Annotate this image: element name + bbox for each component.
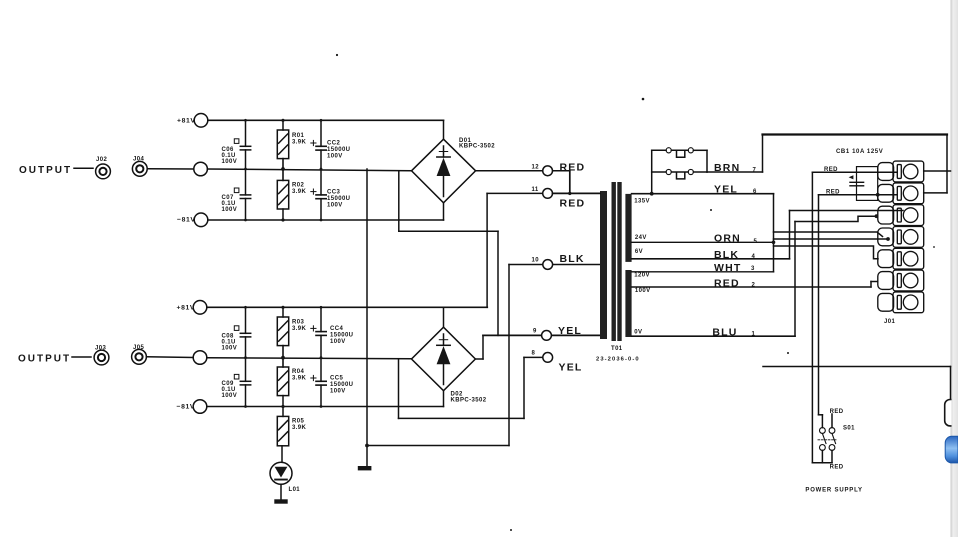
svg-text:ORN: ORN bbox=[714, 232, 741, 244]
svg-text:100V: 100V bbox=[330, 339, 346, 345]
svg-text:J01: J01 bbox=[884, 319, 895, 325]
svg-text:R05: R05 bbox=[292, 419, 304, 425]
svg-text:RED: RED bbox=[830, 409, 844, 415]
svg-text:CC2: CC2 bbox=[327, 141, 340, 147]
svg-text:KBPC-3502: KBPC-3502 bbox=[451, 398, 487, 404]
svg-text:24V: 24V bbox=[635, 235, 647, 241]
svg-text:CB1 10A 125V: CB1 10A 125V bbox=[836, 149, 883, 155]
svg-text:12: 12 bbox=[532, 164, 540, 170]
svg-text:RED: RED bbox=[560, 161, 586, 173]
svg-text:100V: 100V bbox=[222, 159, 238, 165]
svg-text:YEL: YEL bbox=[559, 362, 583, 374]
svg-text:3.9K: 3.9K bbox=[292, 425, 307, 431]
svg-text:T01: T01 bbox=[611, 346, 623, 352]
svg-text:100V: 100V bbox=[327, 154, 343, 160]
svg-text:135V: 135V bbox=[634, 199, 650, 205]
svg-text:23-2036-0-0: 23-2036-0-0 bbox=[596, 357, 640, 363]
svg-text:BRN: BRN bbox=[714, 162, 740, 174]
svg-text:L01: L01 bbox=[289, 487, 301, 493]
svg-text:3.9K: 3.9K bbox=[292, 189, 307, 195]
svg-text:WHT: WHT bbox=[714, 262, 742, 274]
svg-text:+81V: +81V bbox=[177, 305, 195, 312]
svg-text:5: 5 bbox=[754, 239, 758, 245]
svg-text:100V: 100V bbox=[327, 203, 343, 209]
svg-text:100V: 100V bbox=[222, 207, 238, 213]
svg-text:6V: 6V bbox=[635, 249, 643, 255]
svg-text:100V: 100V bbox=[635, 288, 651, 294]
svg-text:3.9K: 3.9K bbox=[292, 326, 307, 332]
svg-text:OUTPUT: OUTPUT bbox=[19, 165, 72, 176]
svg-text:POWER SUPPLY: POWER SUPPLY bbox=[805, 488, 862, 494]
svg-text:CC4: CC4 bbox=[330, 326, 343, 332]
svg-text:100V: 100V bbox=[222, 393, 238, 399]
svg-text:15000U: 15000U bbox=[330, 382, 353, 388]
svg-text:3.9K: 3.9K bbox=[292, 140, 307, 146]
svg-text:4: 4 bbox=[752, 254, 756, 260]
svg-text:RED: RED bbox=[714, 277, 740, 289]
svg-text:8: 8 bbox=[532, 351, 536, 357]
svg-text:100V: 100V bbox=[330, 389, 346, 395]
svg-text:RED: RED bbox=[824, 167, 838, 173]
svg-text:10: 10 bbox=[532, 258, 540, 264]
svg-text:−81V: −81V bbox=[177, 217, 195, 224]
svg-text:BLK: BLK bbox=[560, 253, 585, 265]
svg-text:3.9K: 3.9K bbox=[292, 376, 307, 382]
svg-text:0V: 0V bbox=[634, 330, 642, 336]
svg-text:OUTPUT: OUTPUT bbox=[18, 354, 71, 365]
svg-text:R03: R03 bbox=[292, 320, 304, 326]
svg-text:J02: J02 bbox=[96, 157, 107, 163]
svg-text:2: 2 bbox=[752, 282, 756, 288]
svg-text:100V: 100V bbox=[222, 346, 238, 352]
svg-text:RED: RED bbox=[830, 465, 844, 471]
svg-text:YEL: YEL bbox=[714, 184, 738, 196]
svg-text:15000U: 15000U bbox=[330, 333, 353, 339]
svg-text:11: 11 bbox=[532, 187, 539, 193]
svg-text:R04: R04 bbox=[292, 369, 304, 375]
svg-text:BLU: BLU bbox=[712, 326, 737, 338]
svg-text:1: 1 bbox=[752, 332, 756, 338]
svg-text:R02: R02 bbox=[292, 183, 304, 189]
svg-text:RED: RED bbox=[560, 197, 586, 209]
svg-text:CC3: CC3 bbox=[327, 190, 340, 196]
svg-text:J05: J05 bbox=[133, 345, 144, 351]
svg-text:15000U: 15000U bbox=[327, 196, 350, 202]
svg-text:15000U: 15000U bbox=[327, 147, 350, 153]
svg-text:9: 9 bbox=[533, 329, 537, 335]
svg-text:7: 7 bbox=[753, 168, 757, 174]
svg-text:3: 3 bbox=[751, 266, 755, 272]
svg-text:+81V: +81V bbox=[177, 118, 195, 125]
svg-text:R01: R01 bbox=[292, 133, 304, 139]
svg-text:J03: J03 bbox=[95, 346, 106, 352]
svg-text:120V: 120V bbox=[634, 273, 650, 279]
svg-text:CC5: CC5 bbox=[330, 376, 343, 382]
svg-text:J04: J04 bbox=[133, 157, 144, 163]
svg-text:YEL: YEL bbox=[558, 325, 582, 337]
svg-text:KBPC-3502: KBPC-3502 bbox=[459, 144, 495, 150]
svg-text:6: 6 bbox=[753, 189, 757, 195]
svg-text:RED: RED bbox=[826, 190, 840, 196]
svg-text:BLK: BLK bbox=[714, 249, 739, 261]
svg-text:−81V: −81V bbox=[177, 404, 195, 411]
svg-text:S01: S01 bbox=[843, 425, 855, 431]
